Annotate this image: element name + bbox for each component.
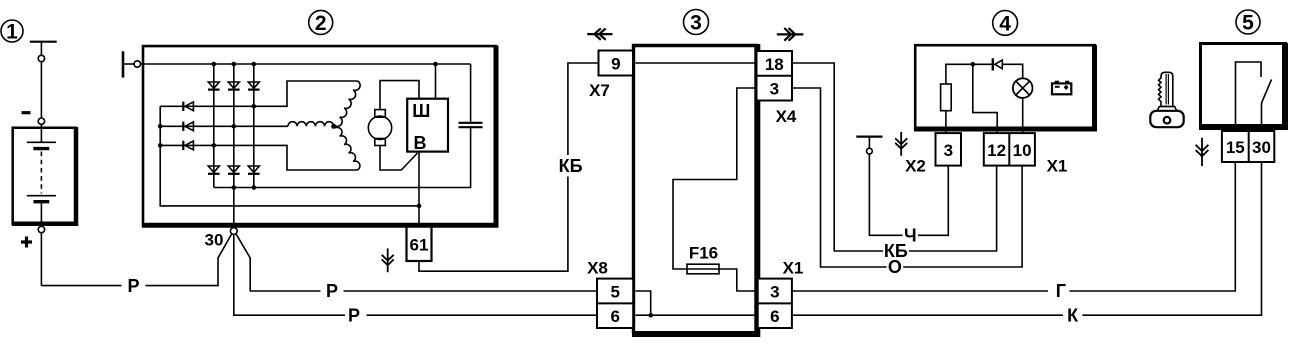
connector pin boxes 15 and 30 bbox=[1222, 131, 1274, 162]
wire O to pin 10 bbox=[903, 166, 1022, 267]
wire: to battery minus post bbox=[40, 62, 42, 118]
node dot phase1/column3 bbox=[252, 104, 257, 109]
diode VD top column 3 bbox=[248, 82, 260, 90]
svg-text:КБ: КБ bbox=[559, 156, 583, 176]
wire: internal X8-6 to X1-6 bbox=[636, 314, 755, 316]
wire: resistor bottom to pin 3 bbox=[945, 111, 947, 133]
wire KB: 61 to X7 pin 9 bbox=[419, 177, 568, 272]
wire Ch: X2-3 to ground terminal (right part) bbox=[918, 166, 948, 236]
wire: battery top continuation bar bbox=[30, 41, 57, 43]
wire: internal X8-5 jumper bbox=[636, 291, 651, 315]
svg-text:F16: F16 bbox=[689, 244, 718, 263]
ignition switch box bbox=[1199, 43, 1287, 129]
svg-text:3: 3 bbox=[690, 12, 702, 35]
arrow continuation right (at X4) bbox=[777, 28, 804, 41]
diode VD bottom column 2 bbox=[228, 166, 240, 174]
wire KB to pin 12 bbox=[909, 166, 997, 251]
wire: phase row 1 bbox=[160, 81, 357, 106]
svg-text:6: 6 bbox=[610, 307, 619, 326]
node dot lamp rail bbox=[971, 62, 976, 67]
wire: battery dashed middle link bbox=[40, 152, 42, 194]
wire: V terminal down to 61 bbox=[418, 152, 420, 228]
svg-text:Р: Р bbox=[348, 305, 360, 325]
connector X7 pin 9 box bbox=[599, 51, 634, 76]
arrow continuation left (at X7) bbox=[587, 28, 612, 39]
wire: battery top vertical bbox=[40, 42, 42, 56]
battery indicator icon bbox=[1052, 82, 1071, 94]
svg-text:X2: X2 bbox=[905, 157, 926, 176]
svg-text:Р: Р bbox=[326, 281, 338, 301]
label circle 4 bbox=[993, 11, 1018, 36]
wire K right segment bbox=[1082, 162, 1261, 315]
brush holder box (Sh/V) bbox=[407, 99, 448, 152]
ground arrow near X2 bbox=[895, 132, 907, 156]
wire: X4-3 to O wire bbox=[792, 88, 887, 267]
brush top bbox=[375, 110, 386, 118]
wire: inside battery bottom lead bbox=[40, 203, 42, 223]
wire: phase row 3 bbox=[160, 145, 357, 170]
wire P battery to generator 30 (right segment) bbox=[146, 234, 232, 286]
ground terminal near X2 bbox=[856, 137, 882, 154]
svg-text:5: 5 bbox=[610, 282, 619, 301]
node: stator star point bbox=[331, 124, 336, 129]
node: battery plus post bbox=[38, 226, 44, 232]
wire P to X8 pin 5 (right segment) bbox=[344, 290, 598, 292]
svg-text:30: 30 bbox=[1252, 138, 1271, 157]
svg-text:К: К bbox=[1067, 305, 1079, 325]
node dot phase3/column1 bbox=[212, 143, 217, 148]
node dots on left bus bbox=[158, 124, 163, 129]
node dots on top rail bbox=[212, 62, 217, 67]
svg-text:12: 12 bbox=[987, 141, 1006, 160]
svg-text:2: 2 bbox=[315, 12, 327, 35]
wire: rectifier column 1 bbox=[213, 64, 215, 188]
connector X1 pin boxes 12 and 10 bbox=[984, 133, 1035, 166]
wire: 30 middle drop to X8-6 bbox=[234, 234, 345, 315]
label minus bbox=[22, 111, 31, 114]
svg-text:3: 3 bbox=[944, 141, 953, 160]
label circle 2 bbox=[309, 10, 333, 35]
charge warning lamp HL bbox=[1013, 78, 1033, 98]
wire: diode to lamp bbox=[1002, 64, 1022, 78]
diode VD auxiliary row 1 bbox=[183, 102, 193, 111]
svg-text:X1: X1 bbox=[1047, 157, 1068, 176]
wire: Sh terminal to top rail bbox=[435, 64, 437, 99]
svg-text:X8: X8 bbox=[587, 258, 608, 277]
wire: 30 right branch to X8-5 bbox=[236, 234, 320, 291]
node dot bus to B wire bbox=[417, 204, 422, 209]
label plus bbox=[21, 237, 32, 248]
ground arrow near pin 15 bbox=[1196, 138, 1209, 166]
diode VD auxiliary row 3 bbox=[183, 141, 193, 150]
rotor field winding circle bbox=[368, 116, 391, 139]
wire Ch left part bbox=[869, 154, 902, 235]
svg-text:Ш: Ш bbox=[412, 101, 430, 121]
label circle 3 bbox=[684, 10, 709, 35]
svg-text:18: 18 bbox=[765, 55, 784, 74]
wire: rectifier column 2 (to terminal 30) bbox=[233, 64, 235, 228]
svg-text:X1: X1 bbox=[783, 258, 804, 277]
wire K: X1-6 to pin 30 (left segment) bbox=[792, 314, 1063, 316]
fuse F16 bbox=[687, 264, 719, 274]
node: battery circuit terminal bbox=[38, 55, 44, 61]
brush bottom bbox=[375, 139, 386, 146]
node: generator case terminal bbox=[134, 61, 140, 67]
cluster box bbox=[914, 45, 1096, 130]
svg-text:В: В bbox=[414, 133, 427, 153]
diode VD bottom column 3 bbox=[248, 166, 260, 174]
svg-text:30: 30 bbox=[205, 230, 224, 249]
switch contact SA bbox=[1236, 62, 1272, 130]
stator coil phase 1 (top diagonal) bbox=[335, 81, 360, 126]
svg-text:X4: X4 bbox=[776, 107, 797, 126]
connector 61 box bbox=[407, 226, 432, 261]
wire: rectifier column 3 bbox=[253, 64, 255, 188]
diode VD auxiliary row 2 bbox=[183, 122, 193, 131]
wire: phase row 2 bbox=[160, 125, 288, 127]
diode VD bottom column 1 bbox=[208, 166, 220, 174]
wire G right segment bbox=[1070, 162, 1236, 291]
svg-text:1: 1 bbox=[6, 21, 18, 44]
wire P battery to generator 30 (left segment) bbox=[41, 285, 121, 287]
svg-text:9: 9 bbox=[611, 54, 620, 73]
wire: case ground link bbox=[124, 63, 134, 65]
wire: resistor top to lamp rail bbox=[946, 64, 992, 84]
node: battery minus post bbox=[38, 118, 44, 124]
battery cell 1 plates bbox=[27, 142, 56, 148]
resistor R bbox=[941, 84, 952, 111]
svg-text:3: 3 bbox=[770, 282, 779, 301]
svg-text:О: О bbox=[888, 257, 902, 277]
diode VD top column 2 bbox=[228, 82, 240, 90]
stator coil phase 2 (horizontal) bbox=[288, 122, 334, 127]
node dot X8 jumper bbox=[648, 313, 653, 318]
wire: battery plus down bbox=[40, 233, 42, 286]
svg-text:Г: Г bbox=[1056, 281, 1066, 301]
ground: generator case chassis bar bbox=[122, 51, 125, 77]
svg-text:10: 10 bbox=[1013, 141, 1032, 160]
wire: lamp bottom to pin 10 bbox=[1022, 98, 1024, 133]
svg-text:Р: Р bbox=[127, 276, 139, 296]
svg-text:15: 15 bbox=[1226, 138, 1245, 157]
stator coil phase 3 (bottom diagonal) bbox=[335, 127, 360, 170]
wire: fuse to X1-3 bbox=[719, 269, 755, 291]
label circle 5 bbox=[1236, 10, 1260, 35]
connector X2 pin 3 box bbox=[936, 133, 962, 166]
diode VD top column 1 bbox=[208, 82, 220, 90]
svg-text:6: 6 bbox=[770, 307, 779, 326]
wire: rotor bottom brush to B terminal bbox=[380, 146, 418, 171]
ground arrow near 61 bbox=[382, 248, 394, 272]
wire: internal X4-3 to fuse bbox=[673, 88, 755, 269]
generator case box bbox=[142, 46, 497, 226]
battery box GB bbox=[12, 127, 77, 225]
connector X4 pin boxes 18 and 3 bbox=[757, 51, 793, 101]
capacitor C plates bbox=[459, 123, 483, 127]
wire: rotor top brush to brush box bbox=[380, 81, 419, 110]
wire G: X1-3 to pin 15 (left segment) bbox=[792, 290, 1048, 292]
svg-text:61: 61 bbox=[410, 235, 429, 254]
connector X8 pin boxes 5 and 6 bbox=[597, 279, 633, 328]
battery cell 2 plates bbox=[27, 196, 56, 202]
node dot phase2/column2 bbox=[232, 124, 237, 129]
connector X1 pin boxes 3 and 6 bbox=[758, 279, 792, 328]
wire: capacitor top lead bbox=[470, 64, 472, 122]
wire P to X8 pin 6 (right segment) bbox=[367, 314, 598, 316]
svg-text:X7: X7 bbox=[589, 81, 610, 100]
wire: dot to pin 12 bbox=[973, 64, 997, 133]
mounting block box bbox=[632, 44, 758, 334]
node: generator terminal 30 bbox=[230, 228, 237, 235]
wire: X4-18 to KB wire bbox=[792, 63, 883, 251]
label circle 1 bbox=[1, 20, 23, 44]
svg-text:5: 5 bbox=[1242, 12, 1254, 35]
wire: top ground rail bbox=[141, 63, 471, 65]
wire: auxiliary diode bus (left) bbox=[160, 106, 419, 206]
svg-text:3: 3 bbox=[770, 80, 779, 99]
wire: inside battery top lead bbox=[40, 124, 42, 142]
node dots bottom bus bbox=[232, 185, 237, 190]
svg-text:4: 4 bbox=[999, 13, 1011, 36]
wire: bottom rectifier bus bbox=[214, 128, 471, 187]
wire: internal pin9 to pin18 bbox=[636, 62, 755, 64]
diode VD cluster bbox=[993, 58, 1003, 70]
key icon bbox=[1150, 72, 1183, 127]
wire KB upper segment bbox=[568, 63, 599, 155]
